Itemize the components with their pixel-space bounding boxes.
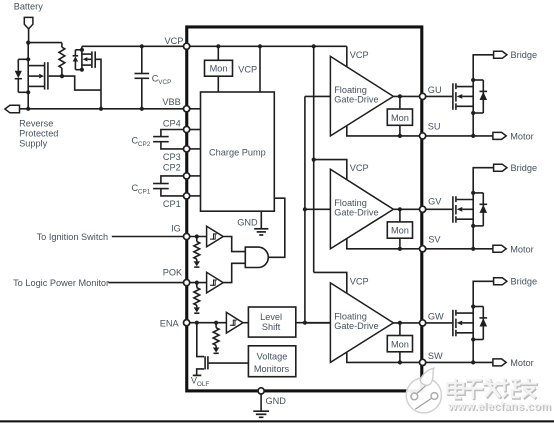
svg-text:Motor: Motor — [510, 358, 534, 368]
svg-text:Bridge: Bridge — [511, 163, 538, 173]
svg-text:Gate-Drive: Gate-Drive — [334, 95, 378, 105]
svg-text:To Ignition Switch: To Ignition Switch — [37, 232, 109, 242]
svg-text:Bridge: Bridge — [511, 277, 538, 287]
svg-text:GW: GW — [428, 311, 444, 321]
svg-text:Bridge: Bridge — [511, 50, 538, 60]
svg-text:Mon: Mon — [391, 339, 409, 349]
svg-text:CP2: CP2 — [163, 163, 181, 173]
svg-text:CP4: CP4 — [163, 119, 181, 129]
svg-text:Mon: Mon — [210, 64, 228, 74]
svg-text:Protected: Protected — [19, 128, 58, 138]
svg-text:IG: IG — [171, 223, 181, 233]
svg-text:SV: SV — [428, 235, 441, 245]
svg-text:CP3: CP3 — [163, 152, 181, 162]
svg-text:VCP: VCP — [350, 50, 369, 60]
svg-text:Mon: Mon — [391, 226, 409, 236]
svg-text:GND: GND — [237, 217, 258, 227]
svg-text:Shift: Shift — [262, 322, 281, 332]
svg-text:Gate-Drive: Gate-Drive — [334, 321, 378, 331]
svg-text:Floating: Floating — [334, 311, 367, 321]
svg-text:GU: GU — [428, 85, 442, 95]
svg-text:Floating: Floating — [334, 85, 367, 95]
svg-text:CP1: CP1 — [163, 199, 181, 209]
svg-text:To Logic Power Monitor: To Logic Power Monitor — [13, 278, 109, 288]
svg-text:Motor: Motor — [510, 132, 534, 142]
svg-text:POK: POK — [163, 268, 183, 278]
svg-text:CP2: CP2 — [138, 141, 151, 148]
svg-text:OLF: OLF — [197, 381, 210, 388]
svg-text:Floating: Floating — [334, 198, 367, 208]
svg-text:VCP: VCP — [158, 79, 171, 86]
svg-text:Monitors: Monitors — [254, 364, 290, 374]
svg-text:VCP: VCP — [350, 277, 369, 287]
svg-text:GV: GV — [428, 197, 442, 207]
svg-text:Gate-Drive: Gate-Drive — [334, 208, 378, 218]
svg-text:Battery: Battery — [14, 2, 44, 12]
svg-text:SW: SW — [428, 351, 443, 361]
svg-text:Motor: Motor — [510, 245, 534, 255]
svg-text:VCP: VCP — [350, 163, 369, 173]
svg-text:GND: GND — [266, 396, 287, 406]
svg-text:CP1: CP1 — [138, 189, 151, 196]
svg-text:VBB: VBB — [162, 97, 180, 107]
svg-text:www.elecfans.com: www.elecfans.com — [447, 401, 551, 413]
svg-text:ENA: ENA — [160, 318, 180, 328]
svg-text:Voltage: Voltage — [257, 351, 288, 361]
svg-text:Mon: Mon — [391, 113, 409, 123]
svg-text:Charge Pump: Charge Pump — [209, 148, 266, 158]
svg-text:SU: SU — [428, 122, 441, 132]
svg-text:Reverse: Reverse — [19, 118, 53, 128]
svg-text:Level: Level — [260, 312, 282, 322]
svg-text:Supply: Supply — [19, 138, 47, 148]
svg-text:VCP: VCP — [164, 36, 183, 46]
svg-text:VCP: VCP — [238, 65, 257, 75]
